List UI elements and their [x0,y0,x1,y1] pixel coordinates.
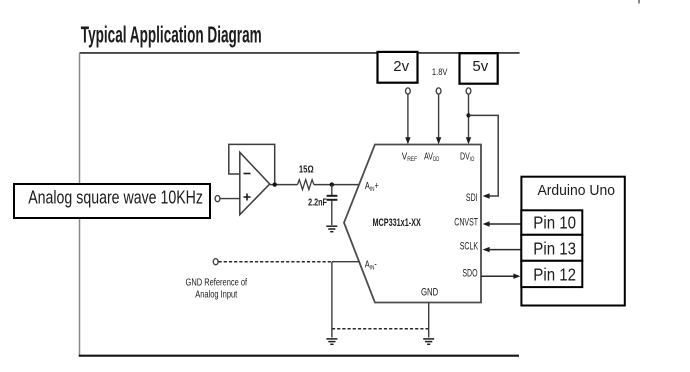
svg-text:GND: GND [421,286,438,299]
wire: SDO to Pin 12 [481,275,516,277]
terminal node: 5v [466,88,471,94]
svg-text:MCP331x1-XX: MCP331x1-XX [373,217,422,229]
ground: right [423,339,434,344]
wire: CNVST from Pin 10 [488,223,522,225]
svg-text:SCLK: SCLK [460,240,479,252]
svg-text:2.2nF: 2.2nF [308,196,327,207]
wire: GND pin down [428,303,430,338]
wire: dashed ground link [332,328,429,330]
frame top edge [80,52,520,54]
svg-text:5v: 5v [472,58,488,75]
svg-text:Pin 13: Pin 13 [533,239,576,258]
svg-text:Pin 12: Pin 12 [533,266,576,285]
svg-text:Arduino Uno: Arduino Uno [538,182,615,199]
svg-text:Analog square wave 10KHz: Analog square wave 10KHz [28,188,203,208]
svg-text:SDO: SDO [462,267,477,279]
svg-text:CNVST: CNVST [454,216,478,228]
svg-text:Typical Application Diagram: Typical Application Diagram [81,23,262,49]
svg-text:GND Reference of: GND Reference of [186,276,248,287]
op-amp U1 [240,152,270,214]
frame bottom edge [79,355,519,357]
wire: 1.8V to AVDD [438,94,440,139]
wire: SCLK from Pin 13 [488,249,522,251]
node: feedback junction dot [273,182,277,186]
resistor R (15 ohm) [298,163,315,189]
wire: 5v to DVIO [468,94,470,139]
power box 5v [460,53,498,83]
terminal node: 2v [406,88,411,94]
frame left edge [79,53,81,356]
wire: resistor to AIN+ junction [314,184,360,186]
box: Analog square wave 10KHz [14,184,210,218]
svg-text:15Ω: 15Ω [299,163,314,174]
node: 5v branch junction dot [466,113,470,117]
terminal node: GND reference [213,259,218,265]
node: AIN+ junction dot [330,182,334,186]
ground: left [326,339,337,344]
wire: op-amp output [270,184,298,186]
IC U2 MCP331x1-XX outline [344,145,481,303]
box: Pin 10 [521,210,582,235]
capacitor C (2.2nF) [308,185,337,225]
svg-text:SDI: SDI [466,192,478,204]
box: Pin 12 [521,261,582,287]
box: Arduino Uno [521,177,624,306]
wire: op-amp feedback loop [229,144,275,184]
svg-text:2v: 2v [393,58,409,75]
wire: AIN- node down to ground [331,262,333,338]
ground: below capacitor [326,226,337,232]
power box 2v [378,52,418,83]
wire: dashed GND reference to AIN- node [219,261,332,263]
svg-text:1.8V: 1.8V [432,66,448,77]
wire: 2v to VREF [407,94,409,139]
terminal node: 1.8V [436,88,441,94]
artifact tick top right [638,0,640,4]
wire: input circle to op-amp + input [220,198,240,200]
svg-text:Pin 10: Pin 10 [533,213,576,232]
svg-text:Analog Input: Analog Input [195,288,238,299]
wire: 5v branch to SDI [469,115,499,196]
terminal node: input circle [215,196,220,202]
box: Pin 13 [521,235,582,261]
wire: AIN- node to chip [332,261,360,263]
